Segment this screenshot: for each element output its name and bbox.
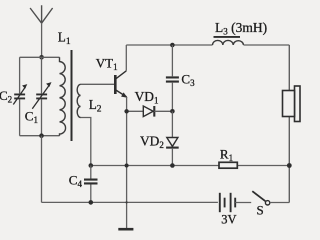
transistor VT1 [115,45,127,98]
node VD2/mid-rail junction [170,163,175,168]
svg-text:L3 (3mH): L3 (3mH) [215,20,267,37]
diode VD2 [166,138,179,166]
inductor L2 (transformer secondary) [77,84,80,117]
capacitor C4 [84,166,98,203]
node emitter/mid-rail junction [125,164,129,168]
wire L2 bottom lead [81,118,91,166]
node C4 top junction [89,163,94,168]
wire bottom rail [42,201,218,203]
inductor L1 (transformer primary) [60,57,66,135]
antenna [30,5,52,23]
node emitter/VD1 junction [124,109,128,113]
node C4 bottom junction [89,200,94,205]
wire top rail left of L3 [126,44,212,46]
transformer core [71,50,73,141]
node antenna/tank junction [39,55,44,60]
wire antenna lead-in [41,23,43,57]
wire L2 top to VT1 base [81,83,115,85]
node mid-rail/right-rail junction [287,163,292,168]
node ground line / bottom rail junction [126,201,128,203]
diode VD1 [143,106,172,117]
wire tank top edge [20,56,60,58]
wire VD1 junction to VD2 [171,111,173,137]
capacitor C3 [166,45,179,111]
wire tank bottom edge [20,135,60,137]
node tank bottom junction [39,133,44,138]
wire VT1 emitter down to ground [126,97,128,229]
wire mid horizontal rail [91,165,289,167]
battery 3V [220,193,251,212]
svg-text:3V: 3V [221,213,236,227]
svg-text:S: S [257,202,264,217]
capacitor C2 (variable) [13,57,27,135]
wire VD1 left lead [127,110,144,112]
node C3/VD1/VD2 junction [170,109,175,114]
switch S [252,191,289,205]
capacitor C1 (variable) [32,57,51,135]
wire tank bottom to bottom rail [41,136,43,203]
wire right rail [288,45,290,203]
node top rail / C3 branch [170,43,175,48]
inductor L3 [213,37,244,45]
speaker [283,86,301,122]
ground [118,228,133,231]
wire top rail right of L3 [244,44,290,46]
resistor R1 [219,162,237,168]
